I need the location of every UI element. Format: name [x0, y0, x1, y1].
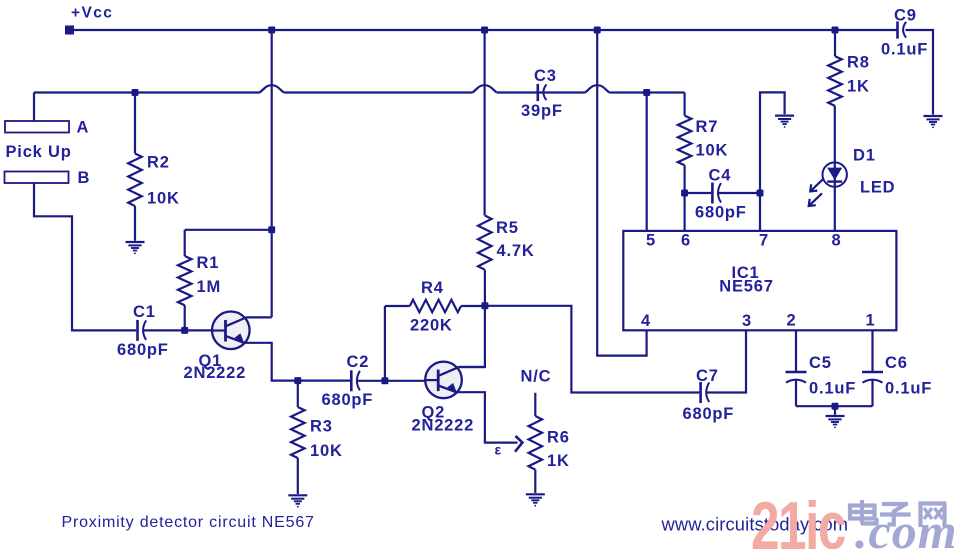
wire R4 right stub — [461, 305, 485, 307]
wire R3 bottom lead — [297, 458, 299, 494]
ground for C5 C6 — [826, 415, 845, 417]
wire Q1 collector stub — [246, 316, 272, 318]
capacitor C2 — [350, 370, 353, 391]
wire pin1 drop — [871, 330, 873, 371]
wire ground stub — [834, 406, 836, 415]
junction dot top rail x835 — [832, 27, 839, 34]
logo Chinese characters dian zi wang — [850, 500, 946, 527]
capacitor C5 — [786, 371, 807, 374]
wire R2 bottom lead — [134, 206, 136, 241]
wire R7 top corner — [683, 93, 685, 116]
wire R4 left riser — [384, 306, 386, 381]
junction dot top rail x597 — [594, 27, 601, 34]
wire pin2 drop — [795, 330, 797, 371]
resistor R8 — [828, 56, 842, 106]
ground for pin7 — [775, 114, 794, 116]
op-amp IC1 NE567 box — [623, 231, 896, 330]
wire hop over collector line x272 — [260, 85, 284, 92]
junction dot R2 top — [132, 89, 139, 96]
capacitor C4 — [711, 183, 714, 204]
wire pin7 to ground — [760, 92, 785, 231]
junction dot R3 top — [294, 377, 301, 384]
wire plate B to C1 — [34, 183, 136, 330]
junction dot R4-R5-Q2 — [481, 302, 488, 309]
transistor Q1 — [212, 312, 250, 350]
wire C5-C6 bottom join — [796, 405, 873, 407]
wiper arrow into R6 — [515, 436, 522, 452]
ground for R6 — [526, 493, 545, 495]
junction dot C1-R1 — [181, 327, 188, 334]
junction dot pin5 drop — [643, 89, 650, 96]
wire second rail segment 3 — [497, 91, 586, 93]
wire R1 bottom lead — [184, 305, 186, 330]
wire C9 to ground corner — [906, 30, 934, 115]
wire hop over pin4 line x597 — [585, 85, 609, 92]
wire Q1 emitter stub and drop — [245, 343, 351, 381]
resistor R1 — [178, 256, 192, 305]
pick-up plate B — [5, 172, 69, 184]
LED D1 triangle — [827, 168, 842, 181]
wire C4 right lead — [717, 192, 760, 194]
wire pin4 riser — [597, 30, 646, 356]
junction dot top rail x484 — [481, 27, 488, 34]
wire R6 top stub — [534, 393, 536, 416]
wire hop over R5 line x484 — [473, 85, 497, 92]
junction dot Q2 base / R4 — [381, 377, 388, 384]
wire R3 top lead — [297, 381, 299, 407]
wire R5 bottom lead — [484, 270, 486, 306]
LED D1 cathode bar — [827, 180, 842, 182]
wire C5 bottom lead — [795, 380, 797, 407]
wire junction to C7 — [485, 306, 699, 393]
wire Q2 emitter to wiper — [457, 392, 518, 442]
wire Q1 collector riser — [271, 30, 273, 317]
wire R8 top lead — [834, 30, 836, 56]
wire Q2 collector stub join — [459, 366, 485, 368]
wire C2 to Q2 base — [356, 380, 425, 382]
junction dot C4 right — [757, 190, 764, 197]
LED arrow 1 — [810, 179, 823, 192]
svg-text:21ic: 21ic — [751, 487, 845, 549]
resistor R2 — [128, 154, 142, 207]
wire R1 top lead — [184, 230, 186, 256]
wire R6 bottom lead — [534, 470, 536, 493]
LED D1 circle — [823, 162, 847, 186]
ground for R3 — [288, 494, 307, 496]
svg-text:.com: .com — [855, 503, 954, 549]
wire R8 to LED to pin8 — [834, 106, 836, 231]
wire pin5 drop — [646, 93, 648, 231]
resistor R5 — [478, 216, 492, 270]
wire second rail segment 2 — [284, 91, 473, 93]
capacitor C3 — [536, 84, 539, 101]
wire Q2 collector drop — [459, 306, 485, 367]
junction dot R1 branch — [268, 226, 275, 233]
wire second rail segment 4 — [609, 91, 684, 93]
pick-up plate A — [5, 121, 69, 133]
junction dot top rail x272 — [268, 27, 275, 34]
wire second rail segment 1 — [34, 91, 260, 93]
wire C6 bottom lead — [871, 380, 873, 407]
resistor R7 — [678, 116, 692, 166]
capacitor C1 — [136, 320, 139, 341]
wire R5 top riser — [484, 30, 486, 216]
node +Vcc terminal pad — [65, 26, 74, 35]
wire C4 left lead — [685, 192, 712, 194]
wire R4 left stub — [385, 305, 410, 307]
wire C7 to pin3 — [706, 330, 746, 392]
resistor R4 — [410, 300, 461, 312]
ground for R2 — [126, 241, 145, 243]
resistor R3 — [291, 407, 305, 458]
junction dot C4 left — [681, 190, 688, 197]
wire R2 top lead — [134, 93, 136, 154]
wire +Vcc top rail — [70, 29, 897, 31]
ground for C9 — [924, 115, 943, 117]
wire R7 to pin6 — [683, 165, 685, 231]
capacitor C7 — [699, 382, 702, 403]
wire R1 branch horizontal — [185, 229, 272, 231]
wire C1 to Q1 base — [143, 329, 213, 331]
capacitor C6 — [862, 371, 883, 374]
resistor R6 — [529, 416, 543, 470]
junction dot ground node — [832, 403, 839, 410]
wire rail to plate A — [33, 93, 35, 122]
capacitor C9 — [896, 21, 899, 38]
transistor Q2 — [425, 362, 462, 399]
LED arrow 2 — [809, 193, 822, 206]
